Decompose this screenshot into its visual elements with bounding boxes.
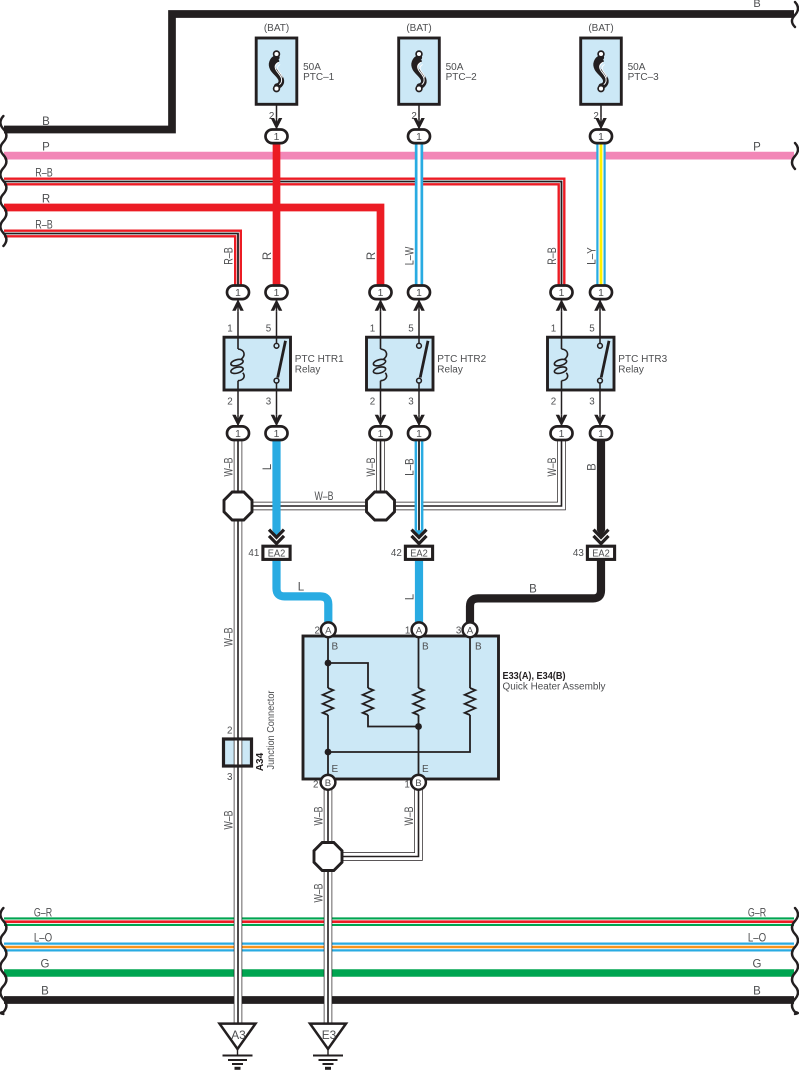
- svg-text:1: 1: [416, 429, 422, 440]
- relay PTC HTR2 pin5 lead: [418, 299, 420, 337]
- fuse PTC-1 50A box: [256, 38, 297, 104]
- relay PTC HTR3 pin2 lead: [561, 390, 563, 426]
- relay PTC HTR2 pin3 lead: [418, 390, 420, 426]
- wire W-B junction J1 to junction J2: [238, 502, 381, 511]
- svg-text:R–B: R–B: [547, 247, 559, 265]
- svg-text:(BAT): (BAT): [264, 23, 289, 34]
- svg-text:1: 1: [227, 323, 232, 334]
- fuse PTC-2 output arrow: [413, 118, 425, 130]
- relay PTC HTR3 pin1 lead: [561, 299, 563, 337]
- svg-text:B: B: [475, 642, 482, 653]
- ground E3 earth symbol: [313, 1049, 343, 1070]
- svg-text:B: B: [41, 986, 49, 998]
- connector 42 EA2 wire tip: [415, 530, 423, 536]
- svg-text:2: 2: [315, 625, 320, 636]
- connector 1 at relay1 pin1: [227, 286, 249, 300]
- svg-text:3: 3: [408, 397, 414, 408]
- wire L connector 42 EA2 to heater pin 1A: [415, 560, 423, 625]
- heater internal wire from pin 3A down: [469, 636, 471, 688]
- connector 1 at relay1 pin2: [227, 426, 249, 440]
- wire break symbol right edge (top B): [792, 2, 798, 27]
- svg-text:3: 3: [227, 772, 233, 783]
- heater pin 2B connector circle: [321, 775, 336, 790]
- wire B bus (bottom): [4, 996, 794, 1004]
- connector 41 EA2 box: [263, 546, 290, 559]
- relay PTC HTR2 coil: [373, 337, 387, 390]
- connector 1 at relay3 pin3: [590, 426, 612, 440]
- svg-text:R–B: R–B: [35, 167, 53, 179]
- svg-text:B: B: [415, 778, 421, 789]
- wire break symbol right edge (P): [792, 143, 798, 169]
- svg-text:1: 1: [598, 429, 604, 440]
- heater resistor R1: [323, 688, 334, 715]
- svg-text:2: 2: [227, 397, 232, 408]
- junction J3 (octagon): [314, 843, 342, 871]
- svg-text:5: 5: [408, 323, 414, 334]
- wire break symbol left edge (G-R/L-O/G/B group): [0, 908, 6, 1014]
- relay PTC HTR2 pin2 lead: [380, 390, 382, 426]
- junction connector A34 box: [224, 739, 252, 766]
- svg-text:(BAT): (BAT): [588, 23, 613, 34]
- svg-text:5: 5: [589, 323, 595, 334]
- connector 1 at relay2 pin1: [370, 286, 392, 300]
- connector 1 at relay2 pin3: [408, 426, 430, 440]
- wire G bus (bottom): [4, 969, 794, 976]
- svg-text:E: E: [422, 764, 429, 775]
- svg-text:B: B: [529, 584, 537, 596]
- svg-text:1: 1: [551, 323, 556, 334]
- junction J2 (octagon): [367, 492, 395, 520]
- wire L-W from fuse PTC-2 down to relay PTC HTR2 pin 5: [415, 140, 423, 287]
- relay PTC HTR2 pin3 arrow: [413, 414, 425, 426]
- heater internal wire left rail resistor R1 bottom to pin 2B: [327, 715, 329, 782]
- wire L connector 41 EA2 to heater pin 2A: [277, 560, 329, 625]
- svg-text:G–R: G–R: [34, 907, 52, 919]
- wire R-B bus lower, runs right then down to relay PTC HTR1 pin 1: [4, 234, 238, 288]
- wire L relay PTC HTR1 pin 3 to connector 41 EA2: [272, 437, 280, 531]
- relay PTC HTR1 box: [224, 337, 291, 390]
- relay PTC HTR2 pin1 lead: [380, 299, 382, 337]
- relay PTC HTR3 pin1 arrow: [556, 299, 568, 311]
- heater internal junction dot at left top: [325, 660, 332, 667]
- svg-text:1: 1: [274, 429, 280, 440]
- wire W-B relay PTC HTR1 pin 2 down to junction J1: [234, 437, 243, 493]
- connector 1 at relay2 pin2: [370, 426, 392, 440]
- svg-text:Junction Connector: Junction Connector: [266, 690, 277, 770]
- svg-text:3: 3: [589, 397, 595, 408]
- wire B relay PTC HTR3 pin 3 to connector 43 EA2: [597, 437, 605, 531]
- svg-text:E33(A), E34(B): E33(A), E34(B): [503, 671, 566, 682]
- svg-text:41: 41: [248, 548, 259, 559]
- heater resistor R2: [363, 688, 374, 715]
- svg-text:PTC HTR1: PTC HTR1: [295, 354, 344, 365]
- wire G-R bus (bottom): [4, 917, 794, 926]
- svg-text:B: B: [42, 116, 50, 128]
- svg-text:EA2: EA2: [410, 548, 428, 559]
- svg-text:G: G: [753, 959, 762, 971]
- svg-text:W–B: W–B: [315, 491, 334, 503]
- fuse PTC-2 output connector 1: [408, 130, 430, 144]
- relay PTC HTR3 pin3 lead: [599, 390, 601, 426]
- connector 41 EA2 wire tip: [272, 530, 280, 536]
- relay PTC HTR1 pin5 lead: [276, 299, 278, 337]
- svg-text:W–B: W–B: [547, 457, 559, 476]
- relay PTC HTR1 name label: [295, 354, 344, 375]
- ground E3 triangle: [310, 1024, 346, 1049]
- fuse PTC-1 element symbol: [272, 51, 283, 91]
- wire W-B junction J2 right and up to relay PTC HTR3 pin 2: [381, 437, 562, 506]
- svg-text:1: 1: [598, 132, 604, 143]
- ground A3 earth symbol: [223, 1049, 253, 1070]
- svg-text:W–B: W–B: [404, 806, 416, 825]
- heater resistor R3: [413, 688, 424, 715]
- connector 43 EA2 box: [587, 546, 614, 559]
- svg-text:B: B: [587, 463, 599, 471]
- svg-text:R: R: [262, 252, 274, 260]
- svg-text:B: B: [325, 778, 331, 789]
- svg-text:(BAT): (BAT): [406, 23, 431, 34]
- relay PTC HTR1 pin2 lead: [237, 390, 239, 426]
- svg-text:L–O: L–O: [34, 933, 52, 945]
- relay PTC HTR2 name label: [437, 354, 486, 375]
- svg-text:PTC HTR2: PTC HTR2: [437, 354, 486, 365]
- heater pin 1B connector circle: [411, 775, 426, 790]
- fuse PTC-3 output connector 1: [590, 130, 612, 144]
- svg-text:1: 1: [378, 429, 384, 440]
- fuse PTC-2 value label 50A / PTC-2: [446, 62, 478, 83]
- svg-text:Relay: Relay: [618, 365, 644, 376]
- svg-text:1: 1: [370, 323, 375, 334]
- wire B connector 43 EA2 to heater pin 3A: [470, 560, 601, 625]
- svg-text:1: 1: [378, 288, 384, 299]
- fuse PTC-2 50A box: [399, 38, 440, 104]
- fuse PTC-1 output connector 1: [266, 130, 288, 144]
- fuse PTC-1 pin 2 lead wire: [276, 104, 278, 130]
- svg-text:Relay: Relay: [437, 365, 463, 376]
- connector 1 at relay3 pin1: [551, 286, 573, 300]
- svg-text:1: 1: [559, 429, 565, 440]
- wire W-B junction J1 down through junction connector A34 to ground A3: [234, 519, 243, 1025]
- svg-text:1: 1: [274, 288, 280, 299]
- svg-text:1: 1: [416, 288, 422, 299]
- svg-text:1: 1: [235, 288, 241, 299]
- svg-text:W–B: W–B: [224, 810, 236, 829]
- relay PTC HTR3 pin3 arrow: [594, 414, 606, 426]
- relay PTC HTR3 pin5 arrow: [594, 299, 606, 311]
- svg-text:2: 2: [551, 397, 556, 408]
- wire R-B bus upper, runs right then down to relay PTC HTR3 pin 1: [4, 182, 562, 288]
- wire L-O bus (bottom): [4, 943, 794, 952]
- relay PTC HTR3 switch contact: [598, 337, 609, 390]
- svg-text:L: L: [298, 582, 305, 594]
- svg-text:PTC HTR3: PTC HTR3: [618, 354, 667, 365]
- relay PTC HTR2 pin1 arrow: [375, 299, 387, 311]
- svg-text:W–B: W–B: [366, 457, 378, 476]
- svg-text:1: 1: [274, 132, 280, 143]
- svg-text:A3: A3: [231, 1030, 246, 1042]
- heater pin 3A connector circle: [463, 622, 478, 637]
- heater internal wire resistor R4 bottom to left rail: [328, 715, 470, 752]
- connector 1 at relay2 pin5: [408, 286, 430, 300]
- ground A3 triangle: [220, 1024, 256, 1049]
- wire R bus, runs right then down to relay PTC HTR2 pin 1: [4, 208, 381, 288]
- svg-text:EA2: EA2: [592, 548, 610, 559]
- svg-text:L: L: [405, 593, 417, 600]
- fuse PTC-3 value label 50A / PTC-3: [628, 62, 660, 83]
- relay PTC HTR1 coil: [230, 337, 244, 390]
- svg-text:42: 42: [391, 548, 402, 559]
- heater internal wire from pin 2A down (left branch): [327, 636, 329, 688]
- connector 42 EA2 arrow: [412, 530, 427, 544]
- svg-text:R–B: R–B: [35, 219, 53, 231]
- svg-text:R: R: [42, 193, 50, 205]
- relay PTC HTR1 switch contact: [274, 337, 285, 390]
- junction connector A34 redraw wire through box: [234, 741, 243, 765]
- svg-text:A: A: [467, 625, 474, 636]
- svg-text:L: L: [262, 463, 274, 470]
- svg-text:B: B: [753, 986, 761, 998]
- wire break symbol left edge (B/P/R-B/R/R-B group): [0, 116, 6, 246]
- wire B main feed: left edge, up and across the top: [4, 14, 794, 130]
- connector 43 EA2 arrow: [594, 530, 609, 544]
- fuse PTC-1 output arrow: [271, 118, 283, 130]
- svg-text:43: 43: [573, 548, 584, 559]
- svg-text:B: B: [332, 642, 339, 653]
- svg-text:P: P: [753, 141, 761, 153]
- relay PTC HTR1 pin3 lead: [276, 390, 278, 426]
- heater internal junction dot at left bottom: [325, 749, 332, 756]
- relay PTC HTR2 pin5 arrow: [413, 299, 425, 311]
- connector 1 at relay3 pin5: [590, 286, 612, 300]
- relay PTC HTR3 pin5 lead: [599, 299, 601, 337]
- wire W-B heater pin 2B down to junction J3: [324, 789, 333, 844]
- relay PTC HTR1 pin2 arrow: [232, 414, 244, 426]
- svg-text:W–B: W–B: [224, 457, 236, 476]
- svg-text:L–Y: L–Y: [587, 247, 599, 265]
- heater pin 1A connector circle: [412, 622, 427, 637]
- svg-text:2: 2: [370, 397, 375, 408]
- fuse PTC-3 output arrow: [595, 118, 607, 130]
- wire W-B junction J3 down to ground E3: [324, 869, 333, 1025]
- fuse PTC-3 element symbol: [596, 51, 607, 91]
- wire R from fuse PTC-1 down to relay PTC HTR1 pin 5: [273, 140, 281, 287]
- heater internal wire resistor R2 bottom to center branch: [368, 715, 419, 727]
- svg-text:Relay: Relay: [295, 365, 321, 376]
- fuse PTC-3 pin 2 lead wire: [600, 104, 602, 130]
- wire W-B relay PTC HTR2 pin 2 down to junction J2: [376, 437, 385, 493]
- heater internal branch to resistor 2: [328, 663, 368, 688]
- svg-text:2: 2: [227, 726, 232, 737]
- svg-text:1: 1: [416, 132, 422, 143]
- relay PTC HTR1 pin1 lead: [237, 299, 239, 337]
- svg-text:PTC–3: PTC–3: [628, 72, 660, 83]
- relay PTC HTR1 pin1 arrow: [232, 299, 244, 311]
- svg-text:G–R: G–R: [748, 907, 766, 919]
- quick heater assembly box: [303, 636, 499, 779]
- svg-text:B: B: [753, 0, 760, 10]
- svg-text:L–W: L–W: [405, 247, 417, 266]
- connector 1 at relay1 pin3: [266, 426, 288, 440]
- svg-text:3: 3: [456, 625, 462, 636]
- svg-text:E: E: [332, 764, 339, 775]
- svg-text:1: 1: [559, 288, 565, 299]
- fuse PTC-2 element symbol: [414, 51, 425, 91]
- heater internal wire resistor R3 bottom to pin 1B: [418, 715, 420, 782]
- relay PTC HTR3 coil: [554, 337, 568, 390]
- heater internal junction dot center: [415, 723, 422, 730]
- relay PTC HTR3 name label: [618, 354, 667, 375]
- svg-text:PTC–1: PTC–1: [303, 72, 335, 83]
- connector 42 EA2 box: [405, 546, 432, 559]
- svg-text:3: 3: [266, 397, 272, 408]
- svg-text:5: 5: [266, 323, 272, 334]
- heater pin 2A connector circle: [321, 622, 336, 637]
- relay PTC HTR3 pin2 arrow: [556, 414, 568, 426]
- fuse PTC-1 value label 50A / PTC-1: [303, 62, 335, 83]
- svg-text:A34: A34: [255, 752, 266, 771]
- relay PTC HTR1 pin5 arrow: [271, 299, 283, 311]
- relay PTC HTR2 switch contact: [417, 337, 428, 390]
- svg-text:A: A: [325, 625, 332, 636]
- svg-text:R–B: R–B: [224, 247, 236, 265]
- svg-text:Quick Heater Assembly: Quick Heater Assembly: [503, 682, 606, 693]
- svg-text:L–B: L–B: [405, 458, 417, 476]
- svg-text:R: R: [366, 252, 378, 260]
- fuse PTC-3 50A box: [581, 38, 622, 104]
- junction J1 (octagon): [224, 492, 252, 520]
- svg-text:W–B: W–B: [224, 627, 236, 646]
- svg-text:1: 1: [235, 429, 241, 440]
- connector 1 at relay3 pin2: [551, 426, 573, 440]
- wire L-Y from fuse PTC-3 down to relay PTC HTR3 pin 5: [596, 140, 605, 287]
- svg-text:PTC–2: PTC–2: [446, 72, 478, 83]
- wire W-B heater pin 1B down and left to junction J3: [342, 789, 419, 857]
- svg-text:W–B: W–B: [314, 806, 326, 825]
- svg-text:P: P: [42, 141, 50, 153]
- svg-text:E3: E3: [322, 1030, 337, 1042]
- svg-text:B: B: [422, 642, 429, 653]
- connector 43 EA2 wire tip: [597, 530, 605, 536]
- heater resistor R4: [465, 688, 476, 715]
- heater internal wire from pin 1A down: [418, 636, 420, 688]
- svg-text:L–O: L–O: [748, 933, 766, 945]
- wire L-B relay PTC HTR2 pin 3 to connector 42 EA2: [415, 437, 424, 531]
- fuse PTC-2 pin 2 lead wire: [418, 104, 420, 130]
- svg-text:1: 1: [598, 288, 604, 299]
- relay PTC HTR3 box: [548, 337, 615, 390]
- svg-text:G: G: [41, 959, 50, 971]
- svg-text:1: 1: [405, 625, 410, 636]
- wire P bus (pink) across page: [4, 152, 794, 160]
- wire break symbol right edge (G-R/L-O/G/B group): [792, 908, 798, 1014]
- svg-text:W–B: W–B: [314, 883, 326, 902]
- connector 1 at relay1 pin5: [266, 286, 288, 300]
- connector 41 EA2 arrow: [269, 530, 284, 544]
- relay PTC HTR1 pin3 arrow: [271, 414, 283, 426]
- svg-text:2: 2: [313, 779, 318, 790]
- svg-text:1: 1: [404, 779, 409, 790]
- svg-text:EA2: EA2: [268, 548, 286, 559]
- relay PTC HTR2 pin2 arrow: [375, 414, 387, 426]
- relay PTC HTR2 box: [367, 337, 434, 390]
- svg-text:A: A: [416, 625, 423, 636]
